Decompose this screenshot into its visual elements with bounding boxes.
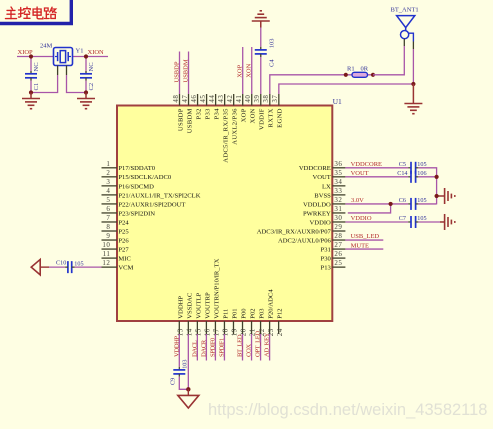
node XOP label <box>237 64 244 77</box>
svg-text:36: 36 <box>334 160 342 168</box>
pin 38 RXTX <box>262 94 274 127</box>
node 3.0V label <box>351 197 364 204</box>
wire USBDM (pin 47) <box>188 52 190 95</box>
svg-text:LX: LX <box>322 183 331 190</box>
svg-text:37: 37 <box>271 95 279 103</box>
svg-text:8: 8 <box>106 223 110 231</box>
svg-text:VOUT: VOUT <box>312 174 330 181</box>
svg-text:XON: XON <box>246 63 253 77</box>
pin 22 P03 <box>258 308 266 336</box>
svg-text:VDDIO: VDDIO <box>351 215 372 222</box>
svg-text:27: 27 <box>334 241 342 249</box>
wire R1 to antenna <box>373 46 404 75</box>
node COX label <box>246 344 253 357</box>
pin 20 P00 <box>240 308 248 336</box>
ground under C1 <box>22 93 40 109</box>
wire PWRKEY pin31 riser <box>348 204 391 213</box>
svg-text:14: 14 <box>186 328 194 336</box>
svg-text:105: 105 <box>417 197 426 204</box>
node DACR label <box>200 339 207 357</box>
pin 7 P24 <box>102 214 130 226</box>
svg-text:P25: P25 <box>118 228 129 235</box>
svg-text:NC: NC <box>88 62 95 71</box>
svg-text:C9: C9 <box>170 378 177 385</box>
svg-text:3: 3 <box>106 178 110 186</box>
svg-text:C6: C6 <box>399 197 406 204</box>
svg-text:3.0V: 3.0V <box>351 197 364 204</box>
node SPDIF1 label <box>218 338 225 357</box>
ground above C4 (inverted) <box>252 11 270 28</box>
svg-text:25: 25 <box>334 259 342 267</box>
svg-text:BT_ANT1: BT_ANT1 <box>391 7 419 14</box>
svg-text:44: 44 <box>208 95 216 103</box>
pin 19 P01 <box>231 308 239 336</box>
svg-text:P01: P01 <box>231 308 238 318</box>
wire C9 to junction <box>179 377 188 390</box>
svg-text:29: 29 <box>334 223 342 231</box>
pin 46 P32 <box>190 94 202 119</box>
node VDDHP label <box>173 336 180 357</box>
wire C14 to junction <box>416 176 437 178</box>
pin 8 P25 <box>102 223 130 235</box>
svg-text:BVSS: BVSS <box>314 192 331 199</box>
svg-text:30: 30 <box>334 214 342 222</box>
pin 14 VSSDAC <box>186 292 194 336</box>
svg-text:P34: P34 <box>213 108 220 120</box>
pin 29 ADC3/IR_RX/AUXR0/P07 <box>257 223 346 235</box>
svg-text:P15/SDCLK/ADC0: P15/SDCLK/ADC0 <box>118 174 171 181</box>
svg-text:VCM: VCM <box>118 265 133 272</box>
svg-text:P11: P11 <box>222 309 229 319</box>
svg-text:VDDIF: VDDIF <box>259 108 266 130</box>
antenna BT_ANT1 <box>391 7 419 50</box>
pin 18 P11 <box>222 309 230 337</box>
svg-text:ADC3/IR_RX/AUXR0/P07: ADC3/IR_RX/AUXR0/P07 <box>257 228 332 235</box>
junction dots crystal <box>29 54 88 94</box>
IC U1 body <box>117 97 342 321</box>
svg-text:9: 9 <box>106 232 110 240</box>
svg-text:BT_LED: BT_LED <box>237 334 244 357</box>
svg-text:DACL: DACL <box>191 340 198 357</box>
wire VDDLDO pin32 3.0V <box>345 203 411 205</box>
junction VSSDAC <box>186 387 190 391</box>
capacitor C6 105 <box>399 197 427 210</box>
svg-text:C14: C14 <box>397 170 407 177</box>
svg-text:P21/AUXL1/IR_TX/SPI2CLK: P21/AUXL1/IR_TX/SPI2CLK <box>118 192 200 199</box>
junction ground lead <box>435 194 439 198</box>
pin 4 P21/AUXL1/IR_TX/SPI2CLK <box>102 187 201 199</box>
node USBDP label <box>174 61 181 82</box>
svg-text:VDDCORE: VDDCORE <box>351 161 382 168</box>
wire C6 to junction column <box>416 203 437 205</box>
pin 13 VDDHP <box>177 296 185 337</box>
wire VDDHP pin13 <box>178 334 180 367</box>
crystal Y1 <box>40 43 83 66</box>
wire USBDP (pin 48) <box>179 52 181 95</box>
svg-text:P17/SDDAT0: P17/SDDAT0 <box>118 165 155 172</box>
svg-text:39: 39 <box>253 95 261 103</box>
svg-text:P30: P30 <box>321 256 332 263</box>
svg-text:103: 103 <box>182 360 189 369</box>
junction EGND/antenna <box>411 82 415 86</box>
node OPT_LED label <box>255 331 262 357</box>
svg-text:105: 105 <box>417 161 426 168</box>
svg-text:XON: XON <box>250 108 257 123</box>
svg-text:PWRKEY: PWRKEY <box>303 210 331 217</box>
svg-text:46: 46 <box>190 95 198 103</box>
svg-text:17: 17 <box>213 328 221 336</box>
svg-text:33: 33 <box>334 187 342 195</box>
node BT_LED label <box>237 334 244 357</box>
svg-text:NC: NC <box>33 62 40 71</box>
svg-text:16: 16 <box>204 328 212 336</box>
svg-text:24M: 24M <box>40 43 53 50</box>
wire VSSDAC pin14 <box>187 334 189 389</box>
svg-text:6: 6 <box>106 205 110 213</box>
svg-text:5: 5 <box>106 196 110 204</box>
svg-text:P24: P24 <box>118 219 129 226</box>
svg-text:48: 48 <box>172 95 180 103</box>
svg-text:VOUTRP: VOUTRP <box>204 292 211 319</box>
svg-text:USBDP: USBDP <box>177 108 184 131</box>
junction C14 <box>435 175 439 179</box>
capacitor C5 105 <box>399 161 427 174</box>
pin 16 VOUTRP <box>204 292 212 336</box>
svg-text:P22/AUXR1/SPI2DOUT: P22/AUXR1/SPI2DOUT <box>118 201 185 208</box>
svg-text:P20/ADC4: P20/ADC4 <box>268 289 275 319</box>
wire EGND (pin 37) <box>279 84 414 94</box>
pin 5 P22/AUXR1/SPI2DOUT <box>102 196 186 208</box>
capacitor C7 105 <box>399 215 427 228</box>
pin 47 USBDM <box>181 94 193 133</box>
svg-text:MUTE: MUTE <box>351 242 369 249</box>
pin 25 P13 <box>321 259 346 271</box>
pin 30 VDDIO <box>310 214 346 226</box>
svg-text:R1: R1 <box>347 66 355 73</box>
svg-text:P23/SPI2DIN: P23/SPI2DIN <box>118 210 155 217</box>
svg-text:45: 45 <box>199 95 207 103</box>
svg-text:43: 43 <box>217 95 225 103</box>
svg-text:24: 24 <box>276 328 284 336</box>
svg-text:VDDHP: VDDHP <box>173 336 180 357</box>
pin 12 VCM <box>102 259 134 271</box>
capacitor C9 103 <box>170 360 189 385</box>
svg-text:XOP: XOP <box>241 108 248 122</box>
svg-text:0R: 0R <box>361 66 369 73</box>
svg-text:C4: C4 <box>268 59 275 67</box>
svg-text:SPDIF1: SPDIF1 <box>218 338 225 357</box>
svg-text:4: 4 <box>106 187 110 195</box>
pin 39 VDDIF <box>253 94 265 130</box>
svg-text:2: 2 <box>106 169 110 177</box>
svg-text:P03: P03 <box>259 308 266 319</box>
svg-text:XOP: XOP <box>237 64 244 77</box>
svg-text:1: 1 <box>106 160 110 168</box>
capacitor C1 NC <box>25 57 40 93</box>
pin 37 EGND <box>271 94 283 128</box>
node XION <box>88 49 105 56</box>
svg-text:Y1: Y1 <box>76 48 84 55</box>
svg-text:15: 15 <box>195 328 203 336</box>
svg-text:https://blog.csdn.net/weixin_4: https://blog.csdn.net/weixin_43582118 <box>208 401 487 419</box>
pin 26 P30 <box>321 250 346 262</box>
wire crystal case to gnd <box>31 75 86 93</box>
svg-text:USBDM: USBDM <box>183 59 190 82</box>
svg-text:ADC2/AUXL0/P06: ADC2/AUXL0/P06 <box>278 237 331 244</box>
svg-text:AD_KEY: AD_KEY <box>264 332 271 357</box>
capacitor C10 105 <box>56 260 84 274</box>
wire AD_KEY pin23 <box>269 334 271 361</box>
junction pin31/pin32 <box>389 202 393 206</box>
watermark <box>208 401 487 419</box>
svg-text:105: 105 <box>417 215 426 222</box>
wire VCM pin12 <box>75 266 102 268</box>
node USB_LED label <box>351 233 380 240</box>
svg-text:P16/SDCMD: P16/SDCMD <box>118 183 154 190</box>
svg-text:U1: U1 <box>333 97 342 106</box>
pin 32 VDDLDO <box>303 196 345 208</box>
ground right of C5/C14/C6 <box>437 188 455 204</box>
svg-text:C10: C10 <box>56 260 66 267</box>
svg-text:38: 38 <box>262 95 270 103</box>
pin 34 LX <box>322 178 345 190</box>
port arrow down <box>178 389 199 408</box>
wire COX pin21 <box>251 334 253 361</box>
svg-text:VSSDAC: VSSDAC <box>186 292 193 319</box>
svg-text:P27: P27 <box>118 246 129 253</box>
node SPDIF0 label <box>209 337 216 357</box>
pin 35 VOUT <box>312 169 345 181</box>
wire antenna pin2 down <box>412 49 414 84</box>
svg-text:32: 32 <box>334 196 342 204</box>
svg-text:USBDM: USBDM <box>186 108 193 133</box>
pin 2 P15/SDCLK/ADC0 <box>102 169 172 181</box>
node VOUT label <box>351 170 369 177</box>
pin 3 P16/SDCMD <box>102 178 155 190</box>
wire DACL pin15 <box>196 334 198 361</box>
pin 15 VOUTLP <box>195 292 203 336</box>
svg-text:105: 105 <box>74 261 83 268</box>
node VDDCORE label <box>351 161 382 168</box>
svg-text:P33: P33 <box>204 108 211 120</box>
pin 42 AUXL2/P36 <box>226 94 238 145</box>
pin 33 BVSS <box>314 187 345 199</box>
wire DACR pin16 <box>205 334 207 361</box>
svg-text:C5: C5 <box>399 161 406 168</box>
node XON label <box>246 63 253 77</box>
pin 10 P27 <box>102 241 130 253</box>
junction R1 left <box>344 73 348 77</box>
node MUTE label <box>351 242 369 249</box>
capacitor C2 NC <box>80 57 95 93</box>
title text 主控电路 <box>6 7 57 19</box>
node DACL label <box>191 340 198 357</box>
svg-text:47: 47 <box>181 95 189 103</box>
svg-text:103: 103 <box>268 39 275 49</box>
wire crystal net <box>17 56 108 58</box>
ground right of C7 <box>416 214 455 230</box>
pin 9 P26 <box>102 232 130 244</box>
port arrow VCM <box>31 259 40 274</box>
svg-text:P13: P13 <box>321 265 332 272</box>
svg-text:11: 11 <box>103 250 111 258</box>
wire USB_LED pin28 <box>345 239 383 241</box>
svg-text:RXTX: RXTX <box>268 108 275 127</box>
pin 23 P20/ADC4 <box>267 289 275 337</box>
svg-text:P12: P12 <box>277 308 284 318</box>
wire RXTX (pin 38) to R1 <box>270 75 346 94</box>
pin 41 XOP <box>235 94 247 122</box>
wire SPDIF1 pin18 <box>223 334 225 361</box>
pin 27 P31 <box>321 241 346 253</box>
svg-text:18: 18 <box>222 328 230 336</box>
svg-text:USBDP: USBDP <box>174 61 181 82</box>
svg-text:106: 106 <box>417 170 426 177</box>
svg-text:P00: P00 <box>241 308 248 319</box>
pin 36 VDDCORE <box>299 160 345 172</box>
wire C5 to junction column <box>416 168 437 205</box>
svg-text:VOUT: VOUT <box>351 170 369 177</box>
pin 24 P12 <box>276 308 284 336</box>
svg-text:SPDIF0: SPDIF0 <box>209 337 216 357</box>
svg-text:12: 12 <box>102 259 110 267</box>
svg-text:41: 41 <box>235 95 243 103</box>
svg-text:VDDIO: VDDIO <box>310 219 331 226</box>
svg-text:VDDHP: VDDHP <box>177 296 184 319</box>
svg-text:P02: P02 <box>250 308 257 318</box>
capacitor C14 106 <box>397 170 426 183</box>
svg-text:P31: P31 <box>321 246 331 253</box>
node VDDIO label <box>351 215 372 222</box>
resistor R1 0R <box>346 66 373 78</box>
svg-text:P32: P32 <box>195 108 202 119</box>
svg-text:XION: XION <box>88 49 105 56</box>
svg-text:7: 7 <box>106 214 110 222</box>
wire MUTE pin27 <box>345 248 383 250</box>
pin 44 P34 <box>208 94 220 119</box>
ground under C2 <box>77 93 95 109</box>
svg-text:C1: C1 <box>33 83 40 91</box>
pin 21 P02 <box>249 308 257 336</box>
pin 6 P23/SPI2DIN <box>102 205 156 217</box>
junction R1 right <box>371 73 375 77</box>
wire XON (pin 40) <box>251 47 253 94</box>
wire BT_LED pin20 <box>242 334 244 361</box>
wire C10 to port <box>40 266 65 268</box>
svg-text:MIC: MIC <box>118 256 131 263</box>
svg-text:35: 35 <box>334 169 342 177</box>
pin 17 VOUTRN/P10/IR_TX <box>213 258 221 336</box>
svg-text:VOUTRN/P10/IR_TX: VOUTRN/P10/IR_TX <box>213 258 220 318</box>
capacitor C4 103 <box>255 28 275 95</box>
ground under antenna <box>404 84 422 114</box>
svg-text:26: 26 <box>334 250 342 258</box>
svg-text:34: 34 <box>334 178 342 186</box>
svg-text:USB_LED: USB_LED <box>351 233 380 240</box>
svg-text:VDDLDO: VDDLDO <box>303 201 331 208</box>
svg-text:C7: C7 <box>399 215 406 222</box>
wire OPT_LED pin22 <box>260 334 262 361</box>
pin 43 ADC5/IR_RX/P35 <box>217 94 229 163</box>
pin 45 P33 <box>199 94 211 119</box>
crystal case pins <box>58 66 67 76</box>
svg-text:42: 42 <box>226 95 234 103</box>
wire XOP (pin 41) <box>242 47 244 94</box>
wire VDDIO pin30 <box>345 221 411 223</box>
svg-text:10: 10 <box>102 241 110 249</box>
svg-text:DACR: DACR <box>200 339 207 357</box>
pin 11 MIC <box>102 250 132 262</box>
svg-text:40: 40 <box>244 95 252 103</box>
node AD_KEY label <box>264 332 271 357</box>
pin 28 ADC2/AUXL0/P06 <box>278 232 345 244</box>
wire VOUT pin35 <box>345 176 411 178</box>
svg-text:VDDCORE: VDDCORE <box>299 165 331 172</box>
wire VDDCORE pin36 <box>345 167 411 169</box>
svg-text:AUXL2/P36: AUXL2/P36 <box>231 108 238 145</box>
svg-text:31: 31 <box>334 205 342 213</box>
pin 31 PWRKEY <box>303 205 345 217</box>
pin 40 XON <box>244 94 256 123</box>
node XIOP <box>18 49 34 56</box>
svg-text:EGND: EGND <box>277 108 284 128</box>
wire SPDIF0 pin17 <box>214 334 216 361</box>
svg-text:28: 28 <box>334 232 342 240</box>
node USBDM label <box>183 59 190 82</box>
svg-text:P26: P26 <box>118 237 129 244</box>
pin 1 P17/SDDAT0 <box>102 160 156 172</box>
svg-text:VOUTLP: VOUTLP <box>195 292 202 318</box>
pin 48 USBDP <box>172 94 184 131</box>
svg-text:COX: COX <box>246 344 253 357</box>
svg-text:OPT_LED: OPT_LED <box>255 331 262 357</box>
svg-text:13: 13 <box>177 328 185 336</box>
title box frame <box>0 0 71 24</box>
svg-text:ADC5/IR_RX/P35: ADC5/IR_RX/P35 <box>222 108 229 163</box>
svg-text:C2: C2 <box>88 83 95 91</box>
